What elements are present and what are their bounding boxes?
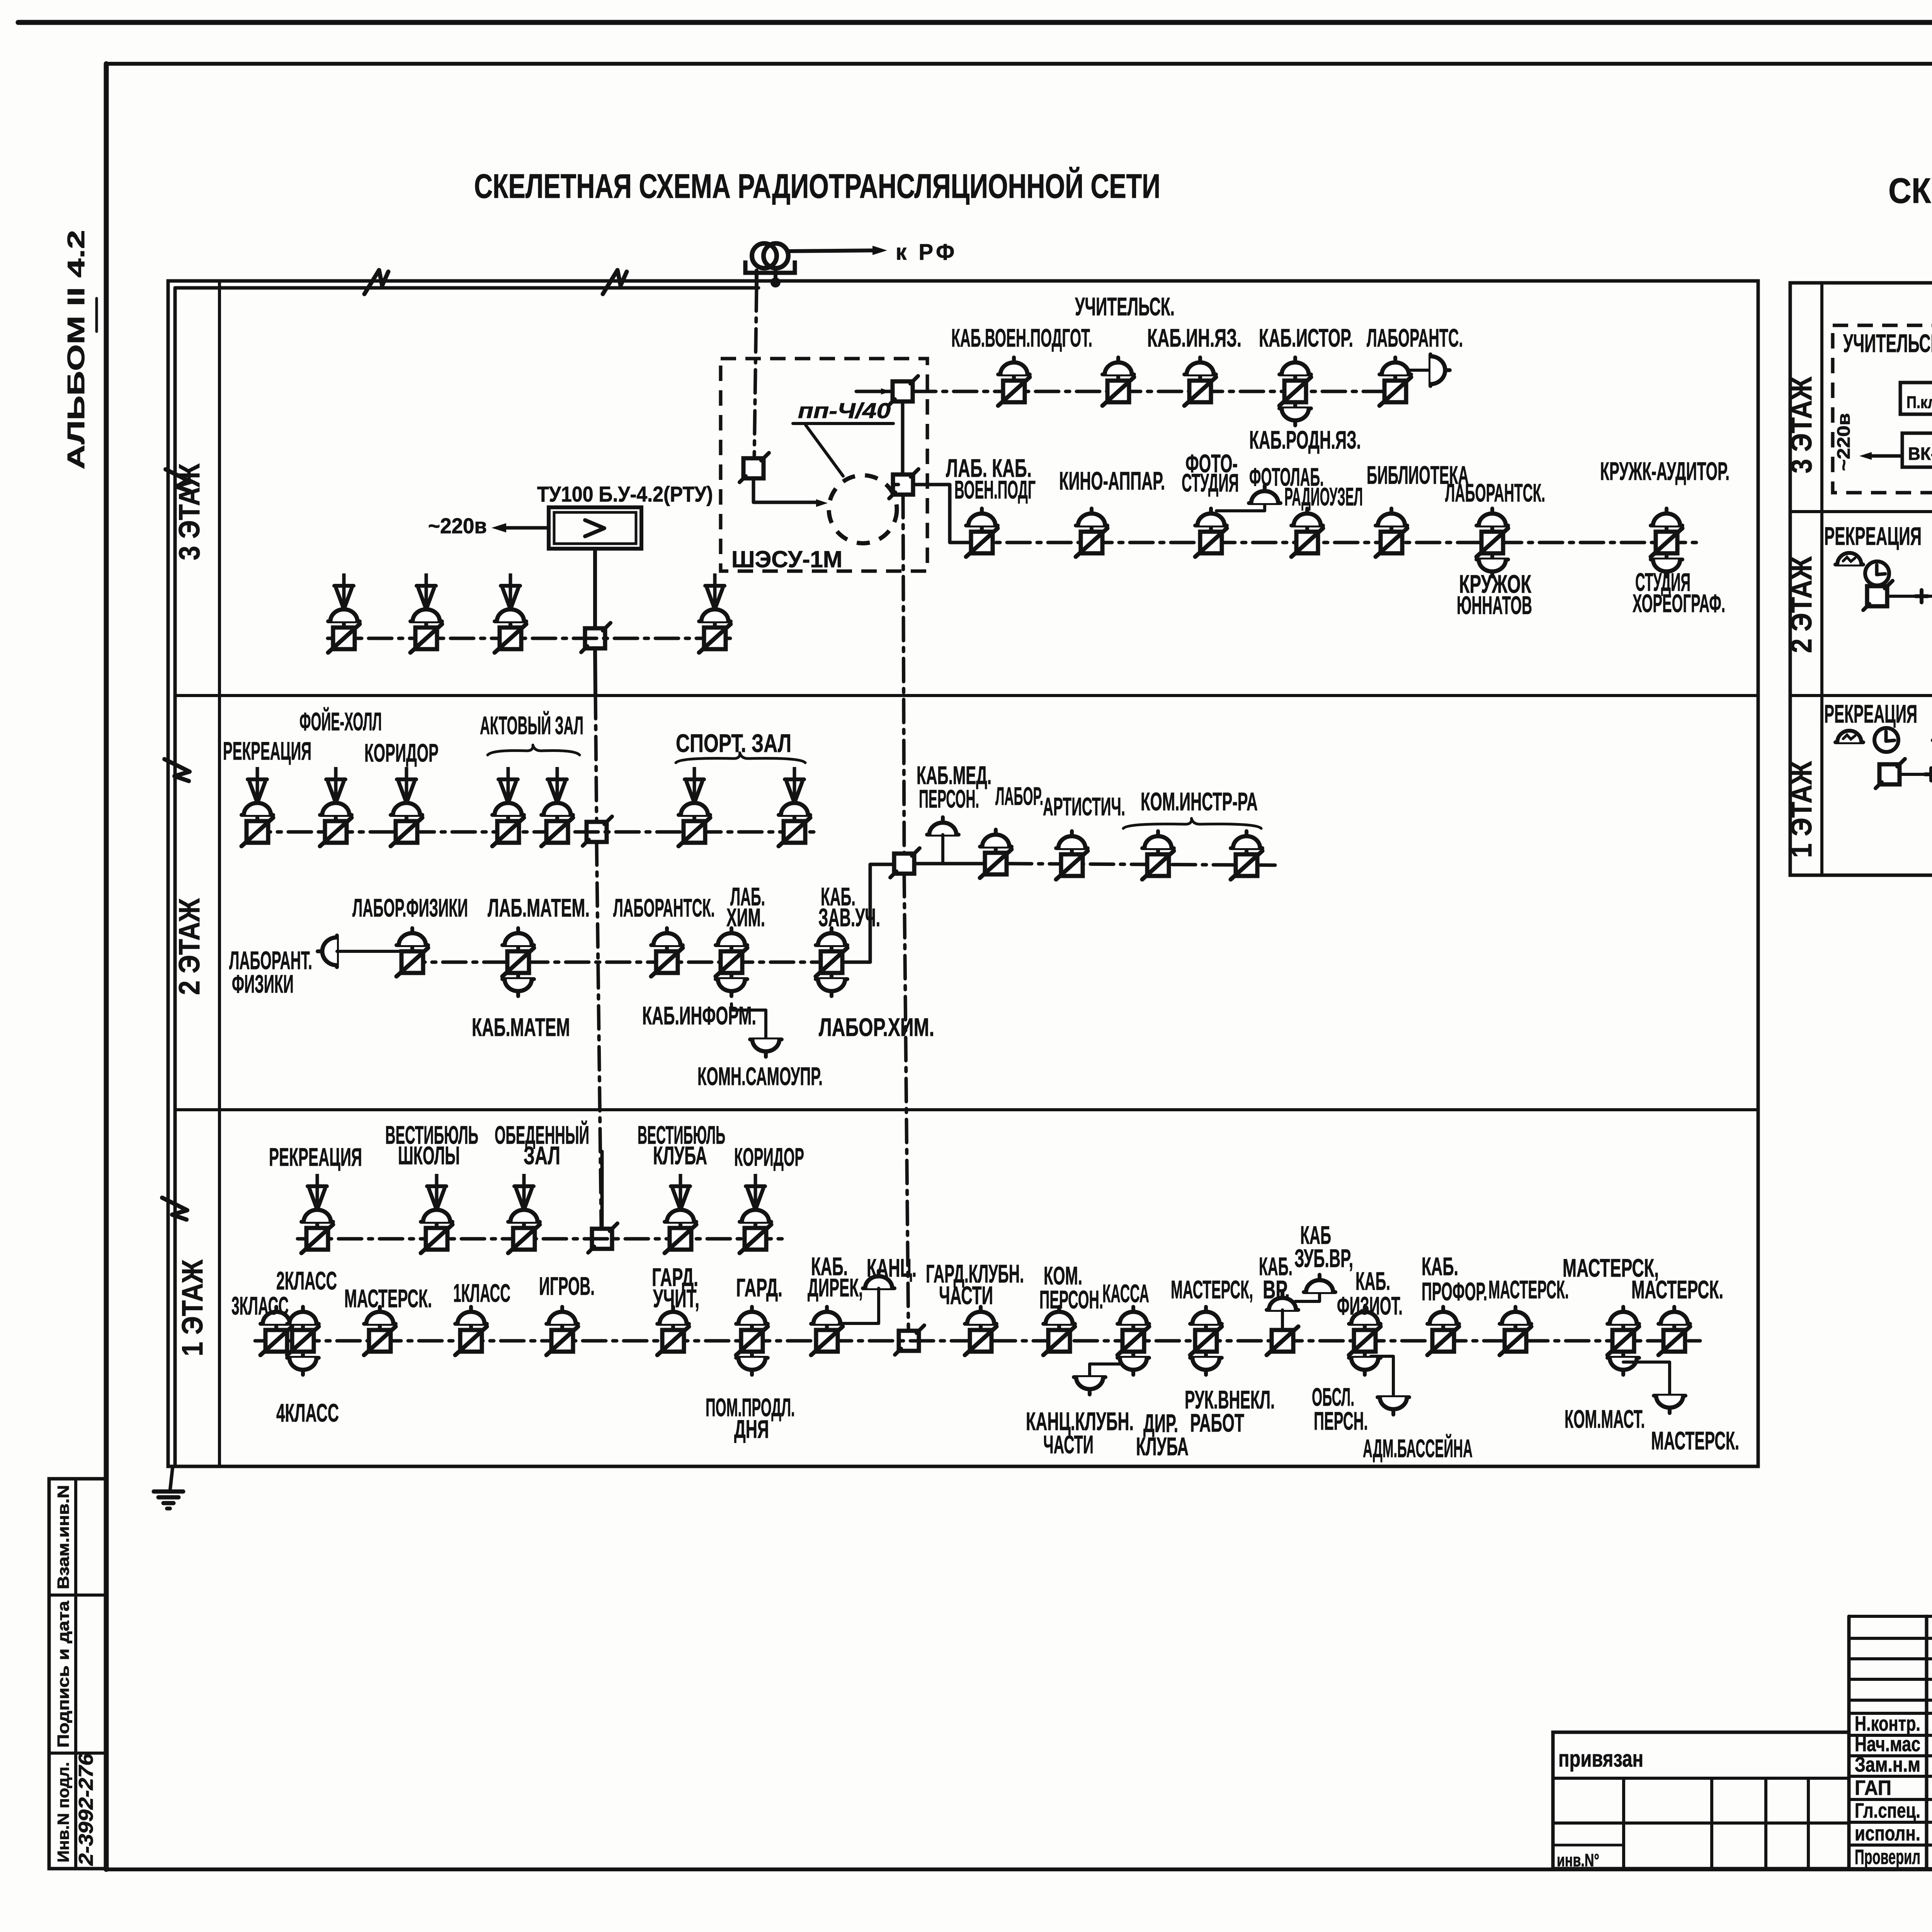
svg-text:ЛАБОР.ХИМ.: ЛАБОР.ХИМ. (819, 1013, 934, 1041)
svg-text:П.кл.3-24: П.кл.3-24 (1906, 393, 1932, 412)
svg-text:ЛАБОРАНТСК.: ЛАБОРАНТСК. (613, 893, 715, 922)
svg-text:ПЕРСОН.: ПЕРСОН. (919, 784, 979, 813)
svg-text:ДИРЕК,: ДИРЕК, (808, 1273, 863, 1302)
svg-text:АКТОВЫЙ ЗАЛ: АКТОВЫЙ ЗАЛ (480, 711, 583, 740)
svg-text:4КЛАСС: 4КЛАСС (276, 1398, 339, 1427)
svg-text:ЧАСТИ: ЧАСТИ (939, 1281, 993, 1310)
svg-text:ГАРД.: ГАРД. (736, 1273, 782, 1302)
svg-text:КИНО-АППАР.: КИНО-АППАР. (1059, 466, 1165, 495)
svg-text:КАССА: КАССА (1102, 1279, 1149, 1308)
svg-text:1КЛАСС: 1КЛАСС (453, 1279, 510, 1307)
svg-text:пп-Ч/40: пп-Ч/40 (798, 398, 891, 423)
svg-text:2-3992-276: 2-3992-276 (75, 1753, 97, 1866)
svg-text:Инв.N подл.: Инв.N подл. (54, 1762, 72, 1862)
svg-text:АДМ.БАССЕЙНА: АДМ.БАССЕЙНА (1363, 1434, 1473, 1463)
svg-text:Нач.мас: Нач.мас (1855, 1733, 1920, 1756)
svg-text:ИГРОВ.: ИГРОВ. (539, 1272, 595, 1300)
svg-text:КОРИДОР: КОРИДОР (734, 1143, 804, 1171)
svg-text:3КЛАСС: 3КЛАСС (231, 1291, 289, 1320)
svg-text:КАБ.ИН.ЯЗ.: КАБ.ИН.ЯЗ. (1147, 323, 1242, 352)
svg-text:ЗАЛ: ЗАЛ (524, 1141, 560, 1170)
svg-text:КАБ.ВОЕН.ПОДГОТ.: КАБ.ВОЕН.ПОДГОТ. (951, 323, 1092, 352)
svg-text:Взам.инв.N: Взам.инв.N (54, 1485, 72, 1589)
svg-text:ФИЗИКИ: ФИЗИКИ (232, 969, 294, 998)
svg-text:ВОЕН.ПОДГ: ВОЕН.ПОДГ (954, 475, 1036, 504)
svg-text:ХИМ.: ХИМ. (726, 903, 765, 932)
svg-text:КОРИДОР: КОРИДОР (364, 738, 439, 767)
svg-text:СКЕЛЕТНАЯ СХЕМА РАДИОТРАНСЛЯ: СКЕЛЕТНАЯ СХЕМА РАДИОТРАНСЛЯЦИОННОЙ СЕТИ (474, 167, 1160, 205)
svg-text:Подпись и дата: Подпись и дата (54, 1600, 72, 1748)
svg-text:исполн.: исполн. (1855, 1822, 1920, 1845)
svg-text:УЧИТ,: УЧИТ, (653, 1284, 699, 1313)
svg-text:ФИЗИОТ.: ФИЗИОТ. (1337, 1291, 1403, 1320)
svg-text:ЛАБОР.ФИЗИКИ: ЛАБОР.ФИЗИКИ (352, 893, 468, 922)
svg-text:ЧАСТИ: ЧАСТИ (1043, 1430, 1094, 1459)
svg-text:КАБ.: КАБ. (1355, 1267, 1390, 1295)
svg-text:Гл.спец.: Гл.спец. (1855, 1799, 1920, 1822)
svg-text:КОМ.ИНСТР-РА: КОМ.ИНСТР-РА (1141, 787, 1258, 816)
svg-text:МАСТЕРСК.: МАСТЕРСК. (1651, 1426, 1739, 1455)
svg-text:РЕКРЕАЦИЯ: РЕКРЕАЦИЯ (223, 736, 311, 765)
svg-text:2 ЭТАЖ: 2 ЭТАЖ (1785, 556, 1818, 653)
svg-text:2КЛАСС: 2КЛАСС (276, 1266, 337, 1295)
svg-text:МАСТЕРСК.: МАСТЕРСК. (1488, 1275, 1569, 1304)
svg-text:УЧИТЕЛЬСК.: УЧИТЕЛЬСК. (1075, 292, 1175, 321)
svg-text:ЛАБ.МАТЕМ.: ЛАБ.МАТЕМ. (488, 893, 590, 922)
svg-text:КЛУБА: КЛУБА (653, 1141, 707, 1170)
svg-text:ДНЯ: ДНЯ (734, 1415, 769, 1443)
svg-text:ЮННАТОВ: ЮННАТОВ (1457, 591, 1532, 619)
svg-text:ПРОФОР.: ПРОФОР. (1422, 1277, 1487, 1306)
svg-text:Зам.н.м: Зам.н.м (1855, 1753, 1920, 1776)
svg-text:ПЕРСН.: ПЕРСН. (1314, 1406, 1368, 1435)
svg-text:РАДИОУЗЕЛ: РАДИОУЗЕЛ (1284, 482, 1363, 511)
svg-text:СКЕЛЕТНАЯ СХЕМА ЭЛЕКТРОЧАСОФ: СКЕЛЕТНАЯ СХЕМА ЭЛЕКТРОЧАСОФИКАЦИИ (1888, 171, 1932, 211)
svg-text:КАБ.: КАБ. (1422, 1252, 1458, 1281)
svg-text:МАСТЕРСК.: МАСТЕРСК. (1631, 1275, 1723, 1304)
svg-text:КЛУБА: КЛУБА (1136, 1432, 1189, 1461)
svg-text:КАБ.ИНФОРМ.: КАБ.ИНФОРМ. (642, 1001, 756, 1030)
svg-text:Н.контр.: Н.контр. (1855, 1712, 1920, 1735)
svg-text:МАСТЕРСК.: МАСТЕРСК. (344, 1284, 432, 1313)
svg-text:ЗАВ.УЧ.: ЗАВ.УЧ. (818, 903, 880, 932)
svg-text:ТУ100 Б.У-4.2(РТУ): ТУ100 Б.У-4.2(РТУ) (537, 482, 713, 506)
svg-text:КОМ.МАСТ.: КОМ.МАСТ. (1565, 1405, 1645, 1433)
svg-text:ФОЙЕ-ХОЛЛ: ФОЙЕ-ХОЛЛ (299, 707, 382, 736)
svg-text:РАБОТ: РАБОТ (1190, 1408, 1244, 1437)
svg-text:к РФ: к РФ (896, 240, 957, 265)
svg-text:ЛАБОР.: ЛАБОР. (995, 782, 1043, 810)
svg-text:ХОРЕОГРАФ.: ХОРЕОГРАФ. (1633, 589, 1725, 617)
svg-text:1 ЭТАЖ: 1 ЭТАЖ (1785, 761, 1818, 858)
svg-text:КАБ.МАТЕМ: КАБ.МАТЕМ (472, 1013, 570, 1041)
svg-text:ВР.: ВР. (1263, 1275, 1290, 1304)
svg-text:КАБ.РОДН.ЯЗ.: КАБ.РОДН.ЯЗ. (1249, 425, 1361, 454)
svg-text:ЛАБОРАНТСК.: ЛАБОРАНТСК. (1445, 478, 1545, 507)
svg-text:инв.N°: инв.N° (1557, 1850, 1599, 1870)
svg-text:ШЭСУ-1М: ШЭСУ-1М (731, 546, 842, 572)
svg-text:2 ЭТАЖ: 2 ЭТАЖ (173, 898, 206, 995)
svg-text:КАНЦ.: КАНЦ. (867, 1253, 917, 1282)
svg-text:РЕКРЕАЦИЯ: РЕКРЕАЦИЯ (1824, 522, 1922, 550)
svg-text:АРТИСТИЧ.: АРТИСТИЧ. (1043, 792, 1125, 821)
svg-text:~220в: ~220в (1833, 413, 1854, 471)
svg-text:РЕКРЕАЦИЯ: РЕКРЕАЦИЯ (269, 1143, 362, 1171)
svg-text:ВК-24м: ВК-24м (1908, 444, 1932, 464)
svg-text:РЕКРЕАЦИЯ: РЕКРЕАЦИЯ (1824, 699, 1917, 728)
svg-text:СПОРТ. ЗАЛ: СПОРТ. ЗАЛ (676, 729, 791, 757)
svg-text:ГАП: ГАП (1855, 1776, 1891, 1799)
svg-text:ЛАБОРАНТС.: ЛАБОРАНТС. (1367, 323, 1463, 352)
svg-text:СТУДИЯ: СТУДИЯ (1182, 468, 1239, 497)
svg-text:МАСТЕРСК,: МАСТЕРСК, (1171, 1275, 1253, 1304)
svg-text:КОМН.САМОУПР.: КОМН.САМОУПР. (697, 1062, 823, 1090)
svg-text:~220в: ~220в (428, 514, 487, 538)
svg-text:ШКОЛЫ: ШКОЛЫ (398, 1141, 460, 1170)
svg-text:ЗУБ.ВР,: ЗУБ.ВР, (1294, 1244, 1353, 1272)
svg-text:3 ЭТАЖ: 3 ЭТАЖ (1785, 376, 1818, 473)
svg-text:АЛЬБОМ II 4.2: АЛЬБОМ II 4.2 (63, 230, 90, 469)
svg-text:КАБ.ИСТОР.: КАБ.ИСТОР. (1259, 323, 1353, 352)
svg-text:привязан: привязан (1558, 1746, 1643, 1772)
svg-text:Проверил: Проверил (1855, 1845, 1920, 1869)
svg-text:УЧИТЕЛЬСКАЯ: УЧИТЕЛЬСКАЯ (1843, 329, 1932, 357)
svg-text:ПЕРСОН.: ПЕРСОН. (1039, 1285, 1103, 1314)
svg-text:КРУЖК-АУДИТОР.: КРУЖК-АУДИТОР. (1600, 457, 1730, 485)
svg-text:1 ЭТАЖ: 1 ЭТАЖ (176, 1259, 209, 1356)
